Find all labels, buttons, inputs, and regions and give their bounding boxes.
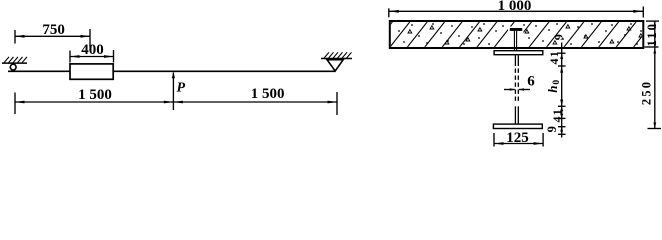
dimension 125 — [494, 130, 543, 147]
dimension 1000 — [389, 0, 644, 18]
svg-text:1 500: 1 500 — [78, 87, 112, 103]
label 9 bottom — [545, 126, 559, 132]
label 41 lower — [550, 108, 564, 122]
svg-text:9: 9 — [545, 126, 559, 132]
shear stud — [510, 28, 522, 50]
svg-text:1 500: 1 500 — [251, 86, 285, 102]
label 9 top — [551, 34, 565, 40]
bottom flange — [493, 124, 542, 128]
bottom dimension 1500 right — [173, 86, 337, 115]
outer dimension 250 — [640, 47, 661, 129]
block on beam — [70, 64, 113, 79]
svg-text:110: 110 — [645, 22, 659, 47]
beam — [8, 70, 335, 72]
web — [515, 55, 518, 124]
dimension 400 — [70, 42, 114, 63]
svg-text:400: 400 — [81, 42, 104, 58]
label h0 — [545, 79, 562, 93]
left support ceiling — [2, 57, 27, 63]
dimension 750 — [15, 22, 90, 47]
right support ceiling — [321, 52, 352, 58]
outer dimension 110 — [645, 21, 660, 47]
svg-text:41: 41 — [547, 50, 561, 64]
load P arrow — [172, 72, 175, 110]
svg-text:750: 750 — [42, 22, 65, 38]
svg-text:P: P — [177, 81, 186, 96]
svg-text:250: 250 — [640, 80, 654, 105]
svg-text:9: 9 — [551, 34, 565, 40]
inner vertical dimension chain — [558, 43, 566, 138]
svg-text:125: 125 — [506, 130, 529, 146]
svg-text:1 000: 1 000 — [498, 0, 532, 14]
left roller support — [10, 64, 16, 70]
dimension 6 (web thickness) — [504, 73, 535, 91]
concrete slab — [372, 21, 654, 48]
top flange — [494, 51, 543, 55]
label 41 upper — [547, 50, 561, 64]
bottom dimension 1500 left — [15, 87, 337, 114]
right pin support triangle — [327, 60, 343, 71]
label P — [177, 81, 186, 96]
svg-text:6: 6 — [527, 73, 535, 89]
svg-text:41: 41 — [550, 108, 564, 122]
